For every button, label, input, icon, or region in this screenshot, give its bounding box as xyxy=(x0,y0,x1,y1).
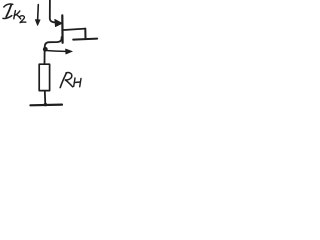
current arrow I_k2 (downward) xyxy=(35,5,40,26)
label Rn : subscript n (Cyrillic n) xyxy=(74,78,81,87)
collector wire (bar bottom, left and down to node) xyxy=(45,37,62,49)
label I_k2 : subscript k xyxy=(14,11,21,19)
base wire (right, then down) xyxy=(64,29,86,39)
wire: emitter lead from top xyxy=(50,0,56,23)
wire: resistor bottom to ground xyxy=(44,91,47,104)
ground bar xyxy=(30,103,62,106)
label I_k2 : subscript 2 xyxy=(19,16,26,23)
wire: node to resistor top xyxy=(44,51,46,64)
output current arrow (right) xyxy=(48,49,73,54)
node junction dot xyxy=(43,47,48,52)
ground junction blob xyxy=(44,103,47,106)
label I_k2 : letter I xyxy=(3,4,13,18)
terminal bar at end of base wire xyxy=(73,39,97,40)
emitter arrow (points into bar, PNP) xyxy=(55,19,63,26)
transistor bar xyxy=(61,15,63,42)
resistor Rn body xyxy=(39,64,49,90)
label Rn : letter R xyxy=(60,73,72,88)
